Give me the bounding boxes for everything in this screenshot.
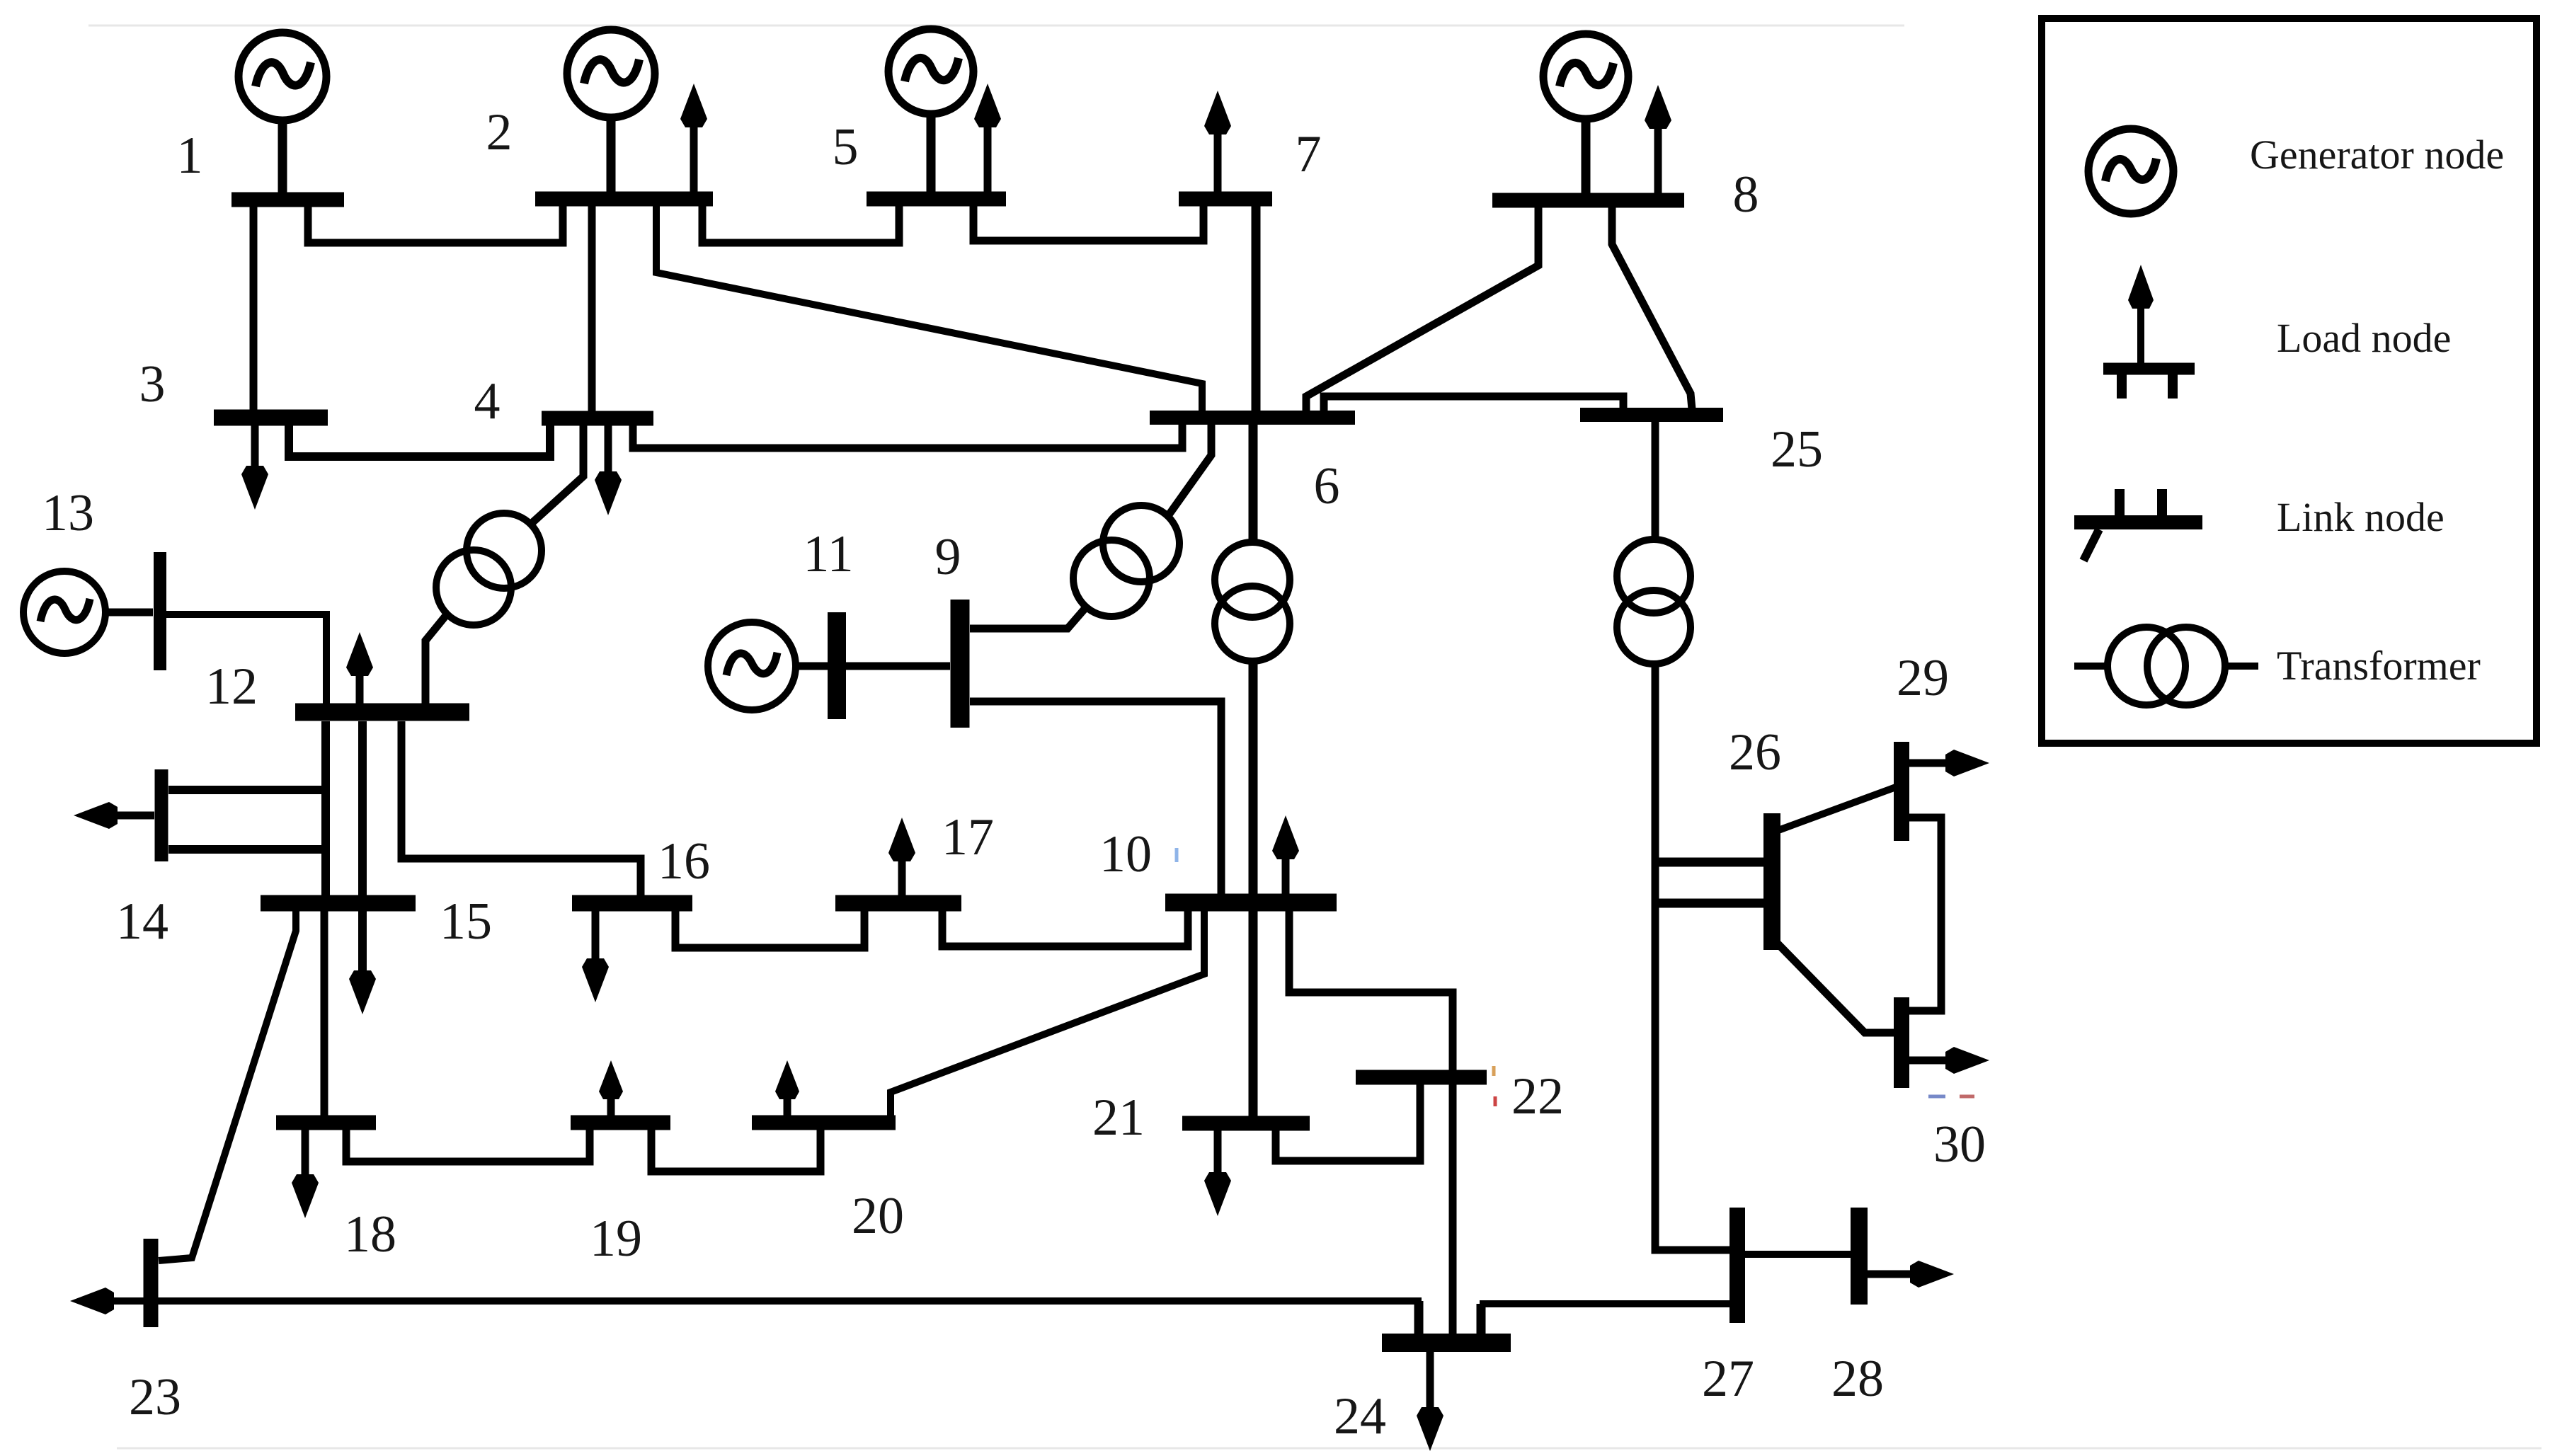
legend generator symbol xyxy=(2088,129,2173,214)
wire 12-14 xyxy=(168,786,326,794)
wire 14-15 xyxy=(168,845,326,854)
transformer T6-10 xyxy=(1215,542,1290,661)
svg-text:6: 6 xyxy=(1314,457,1340,515)
legend transformer symbol xyxy=(2074,627,2258,705)
bus 2 (link node bar) xyxy=(535,192,713,207)
load arrow below bus 24 xyxy=(1417,1352,1443,1451)
svg-text:12: 12 xyxy=(205,658,258,716)
wire 10-20 xyxy=(891,911,1204,1116)
stub long-wire to bus 24 (left) xyxy=(1414,1301,1424,1334)
wire 9-10 xyxy=(970,701,1221,894)
wire 12-13 xyxy=(166,614,326,704)
bus 11 (vertical bar) xyxy=(828,612,846,719)
bus 26 (vertical bar) xyxy=(1763,813,1780,950)
svg-text:11: 11 xyxy=(803,525,853,583)
svg-text:14: 14 xyxy=(116,893,168,951)
wire 19-20 xyxy=(651,1130,821,1171)
svg-text:15: 15 xyxy=(440,893,492,951)
svg-text:25: 25 xyxy=(1771,420,1823,478)
legend link symbol xyxy=(2074,489,2202,561)
bus 17 (link node bar) xyxy=(835,895,961,912)
wire transformer T6-10 through bus 10 to bus 21 xyxy=(1249,661,1258,1116)
svg-text:Transformer: Transformer xyxy=(2277,643,2481,689)
faint bottom rule xyxy=(117,1448,2542,1450)
load arrow below bus 21 xyxy=(1204,1130,1231,1216)
svg-text:20: 20 xyxy=(852,1187,904,1245)
load arrow at bus 19 (up) xyxy=(599,1060,623,1116)
wire 23-27 right segment xyxy=(1480,1300,1730,1307)
generator G5 xyxy=(888,29,973,199)
load arrow at bus 14 (left) xyxy=(74,802,154,829)
load arrow at bus 7 xyxy=(1204,91,1231,199)
wire 6-25 xyxy=(1324,396,1623,412)
stub long-wire to bus 24 (right) xyxy=(1477,1304,1486,1334)
load arrow at bus 5 xyxy=(974,84,1001,199)
generator G8 xyxy=(1543,34,1628,200)
generator G11 xyxy=(708,622,828,710)
wire 18-19 xyxy=(346,1130,590,1162)
legend box xyxy=(2042,18,2537,743)
bus 24 (link node bar) xyxy=(1382,1334,1511,1352)
bus 8 (link node bar) xyxy=(1492,193,1684,208)
wire 2-4 xyxy=(588,199,596,412)
load arrow at bus 12 (up) xyxy=(346,632,373,704)
wire 26-29 xyxy=(1778,787,1896,830)
load arrow below bus 4 xyxy=(595,425,622,515)
svg-text:24: 24 xyxy=(1334,1387,1386,1445)
wire 17-10 xyxy=(942,894,1188,946)
load arrow below bus 18 xyxy=(292,1130,319,1218)
bus 9 (vertical bar) xyxy=(951,600,970,728)
generator G2 xyxy=(567,30,655,199)
svg-text:22: 22 xyxy=(1511,1067,1564,1125)
wire 29-30 xyxy=(1909,818,1941,1011)
legend load symbol xyxy=(2103,265,2195,399)
load arrow at bus 29 (right) xyxy=(1909,750,1989,776)
red dashes near 22 xyxy=(1494,1066,1495,1106)
wire 4 to transformer T4-12 xyxy=(530,425,583,524)
svg-text:26: 26 xyxy=(1729,723,1781,781)
svg-text:17: 17 xyxy=(942,808,994,866)
bus 20 (link node bar) xyxy=(752,1116,896,1130)
svg-text:Generator node: Generator node xyxy=(2250,132,2504,178)
load arrow at bus 20 (up) xyxy=(775,1060,799,1116)
bus 23 (vertical bar) xyxy=(144,1239,159,1327)
wire to bus 26 lower xyxy=(1655,899,1764,908)
svg-text:4: 4 xyxy=(474,372,501,430)
wire 2-5 xyxy=(702,199,899,243)
svg-text:2: 2 xyxy=(486,103,513,161)
bus 21 (link node bar) xyxy=(1182,1116,1310,1131)
bus 29 (vertical bar) xyxy=(1894,742,1909,841)
load arrow at bus 8 xyxy=(1645,85,1671,200)
wire 6-8 xyxy=(1306,200,1538,412)
bus 19 (link node bar) xyxy=(571,1116,670,1130)
svg-text:29: 29 xyxy=(1897,649,1949,707)
wire 6-7 xyxy=(1252,199,1261,412)
bus 16 (link node bar) xyxy=(572,895,692,912)
svg-text:28: 28 xyxy=(1831,1350,1884,1408)
load arrow at bus 17 (up) xyxy=(888,818,915,895)
bus 14 (vertical bar) xyxy=(155,769,168,861)
wire 9 to transformer T6-9 xyxy=(970,607,1086,629)
transformer T6-9 xyxy=(1073,505,1179,617)
svg-text:8: 8 xyxy=(1733,166,1759,224)
bus 7 (link node bar) xyxy=(1179,192,1272,207)
bus 4 (link node bar) xyxy=(542,411,653,426)
svg-text:23: 23 xyxy=(129,1368,181,1426)
bus 6 (link node bar) xyxy=(1150,411,1355,425)
svg-text:27: 27 xyxy=(1702,1350,1754,1408)
load arrow at bus 2 xyxy=(680,84,707,199)
svg-text:Load node: Load node xyxy=(2277,315,2451,361)
bus 25 (link node bar) xyxy=(1580,408,1723,422)
wire 4-6 xyxy=(633,423,1182,448)
wire 1-3 xyxy=(250,200,258,410)
bus 18 (link node bar) xyxy=(276,1116,376,1130)
transformer T25 (to 26/27) xyxy=(1617,539,1691,664)
wire 15-23 xyxy=(159,911,296,1261)
svg-text:13: 13 xyxy=(42,484,94,542)
svg-text:10: 10 xyxy=(1099,825,1152,883)
svg-text:30: 30 xyxy=(1933,1116,1986,1174)
svg-text:Link node: Link node xyxy=(2277,494,2445,540)
transformer T4-12 xyxy=(436,513,542,625)
wire bus 6 to transformer T6-9 xyxy=(1170,422,1211,514)
blue dash near 10 xyxy=(1175,848,1179,862)
bus 1 (link node bar) xyxy=(231,193,344,207)
bus 10 (link node bar) xyxy=(1165,894,1337,912)
wire 2-6 xyxy=(656,199,1202,412)
bus 13 (vertical bar) xyxy=(154,552,166,670)
wire 3-4 xyxy=(289,425,550,457)
bus 28 (vertical bar) xyxy=(1851,1208,1868,1305)
svg-text:1: 1 xyxy=(177,127,203,185)
wire 26-30 xyxy=(1776,941,1894,1033)
bus 27 (vertical bar) xyxy=(1729,1208,1745,1323)
wire transformer T25 down to bus 27 xyxy=(1655,663,1730,1250)
bus 15 (link node bar) xyxy=(261,895,416,912)
colored dashes near 30 xyxy=(1928,1095,1974,1099)
wire 12-15 second + load arrow below bus 15 xyxy=(349,721,376,1014)
svg-text:7: 7 xyxy=(1296,125,1322,183)
load arrow at bus 10 (up) xyxy=(1272,815,1299,894)
wire 22-24 xyxy=(1449,1084,1457,1334)
load arrow below bus 3 xyxy=(241,425,268,510)
wire 10-22 xyxy=(1289,911,1453,1070)
bus 3 (link node bar) xyxy=(214,410,328,426)
bus 30 (vertical bar) xyxy=(1894,997,1909,1088)
wire 21-22 xyxy=(1276,1084,1420,1161)
bus 22 (link node bar) xyxy=(1356,1070,1487,1085)
wire 11-9 xyxy=(846,663,950,670)
svg-text:18: 18 xyxy=(344,1205,396,1263)
generator G1 xyxy=(239,33,326,200)
faint top rule xyxy=(88,25,1904,27)
wire 12-16 xyxy=(401,721,641,895)
load arrow at bus 30 (right) xyxy=(1909,1047,1989,1074)
wire 15-18 xyxy=(321,911,328,1116)
wire transformer T4-12 to bus 12 xyxy=(425,614,447,704)
wire 8-25 xyxy=(1612,200,1692,409)
bus 12 (link node bar) xyxy=(295,704,469,721)
wire bus 6 to transformer T6-10 xyxy=(1249,422,1258,542)
svg-text:5: 5 xyxy=(833,118,859,176)
svg-text:3: 3 xyxy=(139,355,166,413)
svg-text:16: 16 xyxy=(658,832,710,890)
wire bus 25 to transformer T25 xyxy=(1652,422,1659,541)
svg-text:19: 19 xyxy=(590,1210,642,1268)
wire 5-7 xyxy=(973,199,1203,241)
load arrow at bus 23 (left) + long wire 23-27 xyxy=(70,1288,1422,1314)
wire 27-28 xyxy=(1745,1251,1851,1258)
svg-text:9: 9 xyxy=(935,528,961,586)
svg-text:21: 21 xyxy=(1092,1089,1145,1147)
wire 1-2 xyxy=(308,200,563,243)
wire 16-17 xyxy=(675,911,864,948)
wire to bus 26 upper xyxy=(1655,858,1764,867)
load arrow at bus 28 (right) xyxy=(1868,1261,1954,1288)
load arrow below bus 16 xyxy=(582,911,609,1002)
bus 5 (link node bar) xyxy=(867,192,1006,207)
wire 12-15 (vertical) xyxy=(321,721,330,895)
generator G13 xyxy=(23,571,153,653)
